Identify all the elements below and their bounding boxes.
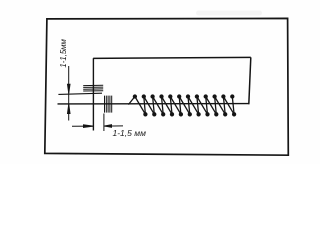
extension line below tight turns	[103, 114, 105, 132]
winding bottom dots	[144, 113, 147, 116]
faint scan smudge	[196, 11, 262, 16]
tight turns on left wire	[83, 85, 103, 91]
svg-text:1-1,5 мм: 1-1,5 мм	[113, 128, 147, 138]
horizontal dimension lines	[72, 125, 123, 128]
tight turns on bottom wire	[105, 96, 112, 113]
svg-text:1-1,5мм: 1-1,5мм	[59, 38, 68, 67]
winding top dots	[133, 95, 136, 98]
loop bottom wire	[58, 103, 249, 105]
loop top wire	[93, 57, 251, 58]
loop right wire	[249, 57, 251, 104]
winding lead wire	[58, 93, 102, 94]
outer frame	[45, 18, 288, 155]
vertical dimension lines	[68, 66, 71, 121]
lead-in wire	[128, 97, 135, 105]
loop left wire with extension below	[92, 58, 94, 130]
coil winding	[128, 95, 235, 116]
winding diagonal turns	[135, 97, 146, 115]
winding return wires	[144, 97, 146, 115]
